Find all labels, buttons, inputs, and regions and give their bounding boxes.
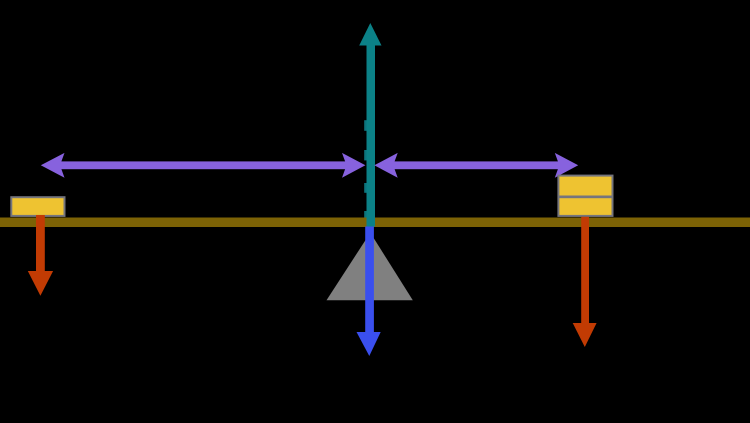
teal normal-force arrow (up) xyxy=(359,23,381,227)
right mass box (top of stack) xyxy=(559,177,611,196)
left purple distance arrow (double-headed) xyxy=(41,153,366,178)
beam (lever plank) xyxy=(0,218,750,228)
right mass box stack frame xyxy=(557,175,613,217)
left mass box xyxy=(10,196,65,217)
right mass box (bottom of stack) xyxy=(559,198,611,215)
fulcrum triangle xyxy=(327,233,413,301)
left orange force arrow (down) xyxy=(28,215,53,296)
blue weight arrow (down, through fulcrum) xyxy=(357,227,381,357)
right purple distance arrow (double-headed) xyxy=(374,153,578,178)
right orange force arrow (down) xyxy=(573,217,597,347)
dashed center pivot line xyxy=(364,120,366,218)
